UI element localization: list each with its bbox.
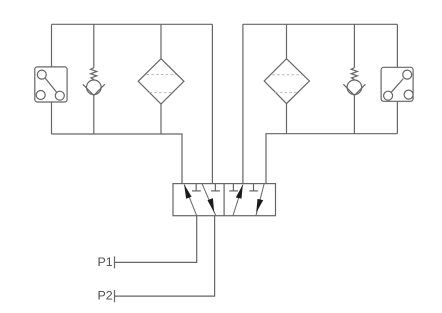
filter F2 (right) (264, 59, 309, 104)
wire: left supply drop to valve (211, 24, 213, 183)
port tick P1 (114, 256, 116, 268)
wire: left indicator bottom drop (51, 102, 53, 134)
wire: right check valve top drop (353, 24, 355, 67)
indicator S1 (clogging indicator, left) (35, 67, 67, 102)
port tick P2 (114, 290, 116, 302)
filter F1 (left) (138, 59, 184, 104)
wire: port P1 line (115, 216, 197, 263)
valve V1 left position: flow arrow up (184, 185, 197, 216)
wire: right filter bottom drop (286, 104, 288, 134)
wire: right supply drop to valve (242, 24, 244, 183)
svg-text:P1: P1 (98, 255, 113, 269)
wire: left check valve bottom drop (93, 95, 95, 134)
wire: left indicator top drop (51, 24, 53, 67)
wire: left check valve top drop (93, 24, 95, 67)
valve V1 left position: flow arrow down (202, 184, 216, 216)
wire: right filter top drop (286, 24, 288, 58)
valve V1 right position: blocked port T4 (249, 184, 258, 191)
wire: right indicator bottom drop (396, 101, 398, 133)
changeover valve V1 body (173, 184, 276, 216)
wire: right bottom bus (266, 134, 397, 184)
wire: left bottom bus (52, 134, 183, 184)
wire: right top bus (243, 23, 398, 25)
wire: port P2 line (115, 216, 215, 296)
valve V1 left position: blocked port T1 (192, 184, 201, 191)
valve V1 right position: flow arrow up (233, 185, 243, 216)
valve V1 right position: blocked port T3 (229, 184, 238, 191)
wire: left filter top drop (160, 24, 162, 58)
valve V1 right position: flow arrow down (256, 184, 264, 216)
svg-text:P2: P2 (98, 289, 113, 303)
check valve CV1 (left bypass, spring loaded) (83, 68, 105, 96)
wire: left filter bottom drop (160, 104, 162, 134)
indicator S2 (clogging indicator, right) (381, 67, 413, 101)
wire: right check valve bottom drop (353, 95, 355, 133)
check valve CV2 (right bypass, spring loaded) (343, 68, 365, 96)
wire: left top bus (52, 23, 213, 25)
wire: right indicator top drop (396, 24, 398, 67)
valve V1 left position: blocked port T2 (211, 184, 220, 191)
